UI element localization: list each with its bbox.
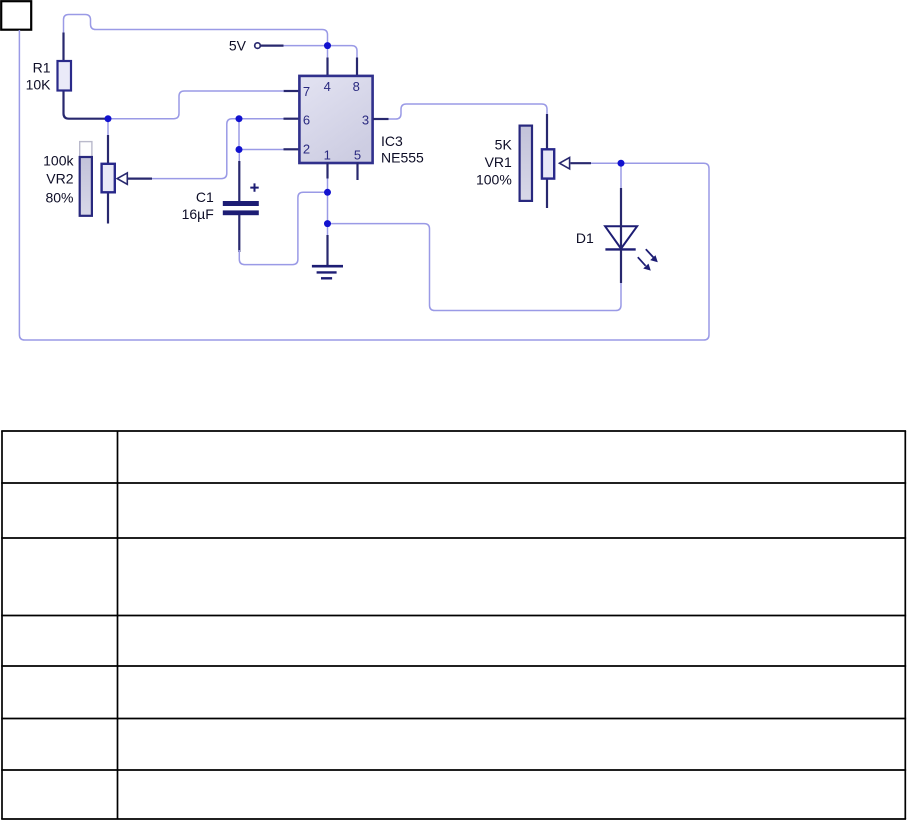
wire: node to pin 8 — [328, 46, 358, 59]
wire: pin 3 to VR1 top — [373, 118, 389, 120]
svg-text:100%: 100% — [476, 172, 512, 188]
svg-text:NE555: NE555 — [381, 150, 424, 166]
svg-text:6: 6 — [303, 112, 310, 127]
junction dots — [324, 42, 331, 49]
op-amp/timer IC3 body — [299, 76, 372, 163]
wire: VR1 wiper to node A — [571, 162, 592, 164]
svg-text:100k: 100k — [43, 152, 74, 168]
potentiometer VR1 body — [542, 149, 554, 178]
svg-text:5K: 5K — [495, 137, 513, 153]
svg-text:IC3: IC3 — [381, 133, 403, 149]
svg-text:5: 5 — [354, 147, 361, 162]
svg-text:10K: 10K — [26, 77, 52, 93]
connector box (top-left) — [1, 1, 31, 30]
LED D1 triangle — [605, 226, 637, 248]
svg-text:8: 8 — [353, 79, 360, 94]
wire: outer loop from box bottom, left side, bottom, right side up to node A — [19, 30, 709, 340]
svg-text:4: 4 — [324, 79, 331, 94]
wire: pin2 node to pin 2 — [239, 149, 284, 151]
wire: pin1 node b right and down to LED cathode — [328, 224, 622, 311]
ground — [312, 265, 343, 268]
svg-text:5V: 5V — [229, 37, 247, 53]
wire: pin2 node down to C1 — [238, 150, 240, 164]
potentiometer VR1 wiper arrow — [560, 158, 570, 169]
table grid — [1, 431, 906, 819]
LED D1 cathode bar — [605, 248, 635, 250]
potentiometer VR2 gauge empty part — [80, 142, 92, 157]
LED emission arrow 2 — [638, 257, 651, 270]
svg-text:2: 2 — [303, 142, 310, 157]
5V terminal circle — [255, 43, 261, 49]
wire: VR2 wiper to pin 6 node — [128, 178, 152, 180]
svg-text:7: 7 — [303, 84, 310, 99]
potentiometer VR2 body — [102, 164, 115, 193]
svg-text:C1: C1 — [196, 189, 214, 205]
pin 1 stub and wire down — [326, 163, 328, 179]
wire: pin6 node to pin 6 — [239, 118, 284, 120]
wire: pin6 node down to pin2 node — [238, 119, 240, 150]
capacitor C1 plates — [223, 201, 259, 206]
potentiometer VR1 gauge — [520, 126, 532, 201]
svg-text:3: 3 — [362, 112, 369, 127]
wire: node A down to LED anode — [620, 163, 622, 190]
capacitor plus sign — [250, 183, 258, 191]
svg-text:16µF: 16µF — [182, 206, 214, 222]
pin 5 stub — [356, 163, 358, 181]
svg-text:1: 1 — [324, 147, 331, 162]
pin 4 stub from node — [327, 46, 329, 59]
wire: 5V terminal to node — [261, 44, 284, 46]
wire: pin1 node b to ground — [327, 224, 329, 237]
LED emission arrow 1 — [646, 249, 658, 262]
potentiometer VR2 gauge filled part — [80, 157, 92, 216]
svg-text:D1: D1 — [576, 230, 594, 246]
svg-text:80%: 80% — [45, 190, 73, 206]
resistor R1 leads — [62, 33, 64, 62]
pin 8 stub — [356, 58, 358, 77]
LED D1 cathode lead — [620, 249, 622, 283]
resistor R1 body — [58, 61, 72, 91]
wire: pin 7 to node B — [284, 90, 300, 92]
potentiometer VR2 wiper arrow — [117, 173, 127, 184]
svg-text:VR2: VR2 — [46, 170, 73, 186]
wire: node B down to VR2 — [107, 119, 109, 137]
svg-text:VR1: VR1 — [485, 154, 512, 170]
svg-text:R1: R1 — [33, 60, 51, 76]
LED D1 anode lead — [620, 188, 622, 249]
wire: R1 top to 5V node — [64, 15, 328, 46]
wire: C1 bottom to pin1 node — [238, 215, 240, 252]
